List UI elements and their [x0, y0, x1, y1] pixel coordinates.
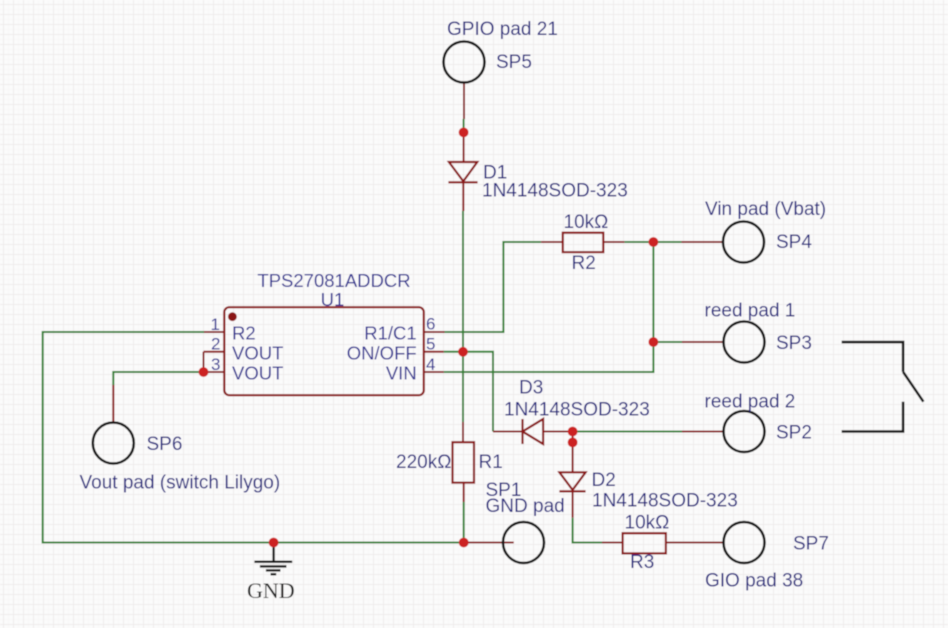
svg-text:SP2: SP2	[776, 423, 812, 444]
svg-text:R3: R3	[630, 552, 654, 573]
svg-text:VOUT: VOUT	[232, 342, 283, 363]
svg-text:4: 4	[426, 355, 435, 374]
svg-text:R2: R2	[232, 323, 256, 344]
svg-text:reed pad 2: reed pad 2	[705, 392, 796, 413]
svg-text:GND pad: GND pad	[486, 496, 565, 517]
svg-text:U1: U1	[321, 289, 345, 310]
svg-text:5: 5	[426, 335, 435, 354]
svg-text:1N4148SOD-323: 1N4148SOD-323	[592, 491, 738, 512]
svg-text:GIO pad 38: GIO pad 38	[705, 571, 803, 592]
svg-text:220kΩ: 220kΩ	[396, 452, 451, 473]
svg-text:D2: D2	[592, 470, 616, 491]
svg-text:R1: R1	[479, 452, 503, 473]
svg-text:GPIO pad 21: GPIO pad 21	[447, 19, 558, 40]
svg-text:3: 3	[211, 355, 220, 374]
svg-text:VIN: VIN	[386, 362, 417, 383]
svg-text:1N4148SOD-323: 1N4148SOD-323	[504, 400, 650, 421]
svg-text:1: 1	[211, 315, 220, 334]
svg-text:SP3: SP3	[776, 333, 812, 354]
svg-text:2: 2	[211, 335, 220, 354]
svg-text:SP6: SP6	[147, 434, 183, 455]
svg-text:SP4: SP4	[776, 232, 812, 253]
svg-text:VOUT: VOUT	[232, 362, 283, 383]
svg-text:1N4148SOD-323: 1N4148SOD-323	[482, 181, 628, 202]
svg-text:R2: R2	[572, 253, 596, 274]
svg-text:Vin pad (Vbat): Vin pad (Vbat)	[705, 199, 826, 220]
svg-text:SP5: SP5	[496, 52, 532, 73]
svg-text:10kΩ: 10kΩ	[625, 513, 670, 534]
svg-text:TPS27081ADDCR: TPS27081ADDCR	[257, 270, 410, 291]
svg-text:ON/OFF: ON/OFF	[347, 342, 417, 363]
svg-text:SP7: SP7	[793, 534, 829, 555]
svg-text:GND: GND	[247, 578, 295, 603]
svg-text:Vout pad (switch Lilygo): Vout pad (switch Lilygo)	[80, 473, 281, 494]
svg-text:10kΩ: 10kΩ	[564, 212, 609, 233]
svg-text:reed pad 1: reed pad 1	[705, 301, 796, 322]
svg-text:R1/C1: R1/C1	[364, 323, 416, 344]
svg-text:6: 6	[426, 315, 435, 334]
svg-text:D3: D3	[519, 378, 543, 399]
